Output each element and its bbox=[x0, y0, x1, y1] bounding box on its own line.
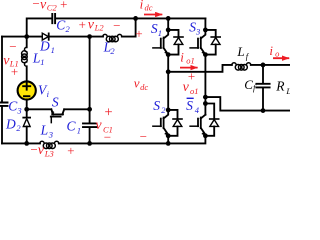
wire left leg top bbox=[167, 18, 169, 30]
node S4 diode split bbox=[203, 101, 208, 106]
inductor L3 bbox=[40, 141, 59, 148]
wire D2 to bottom bbox=[26, 127, 28, 144]
label D1 bbox=[39, 39, 55, 55]
svg-text:dc: dc bbox=[145, 2, 153, 12]
wire riser D1 node down to C1 node bbox=[89, 37, 91, 110]
inductor Lf bbox=[232, 63, 251, 70]
label L3 bbox=[40, 123, 53, 140]
label Vi bbox=[38, 82, 50, 98]
switch S1 (IGBT with diode) bbox=[153, 30, 183, 55]
svg-text:+: + bbox=[135, 26, 144, 41]
svg-text:v: v bbox=[183, 80, 190, 95]
svg-text:2: 2 bbox=[161, 105, 166, 115]
node S-C1 bbox=[87, 107, 92, 112]
wire top bus right segment bbox=[55, 17, 205, 19]
svg-text:S: S bbox=[186, 98, 193, 113]
switch S (horizontal IGBT) bbox=[51, 109, 64, 122]
wire right leg mid bbox=[204, 55, 206, 115]
label C3 bbox=[8, 99, 21, 116]
voltage source Vi bbox=[18, 81, 36, 99]
node S1 bottom bbox=[166, 52, 171, 57]
node Vi output bbox=[24, 107, 29, 112]
wire left rail upper bbox=[1, 37, 3, 102]
label S1 bbox=[151, 21, 162, 38]
label vo1 bbox=[183, 69, 199, 96]
label S switch bbox=[52, 94, 59, 109]
svg-text:4: 4 bbox=[195, 105, 200, 115]
wire Lf to load top bbox=[251, 64, 290, 66]
wire switch S to node bbox=[64, 108, 89, 110]
label Cf bbox=[244, 77, 257, 92]
svg-text:−: − bbox=[139, 129, 148, 144]
wire bridge output 2 bbox=[205, 97, 290, 111]
label L2 bbox=[103, 40, 116, 57]
svg-text:+: + bbox=[10, 64, 19, 79]
wire left leg mid bbox=[167, 55, 169, 110]
node top bus L2 bbox=[133, 16, 138, 21]
svg-text:−: − bbox=[8, 39, 17, 54]
node S2 top bbox=[166, 108, 171, 113]
svg-text:3: 3 bbox=[48, 129, 53, 139]
switch S4 (IGBT with diode) bbox=[190, 104, 219, 136]
label io1 bbox=[180, 50, 195, 66]
svg-text:L: L bbox=[40, 123, 49, 138]
node output tap 1 bbox=[166, 69, 171, 74]
node Cf bottom bbox=[261, 108, 266, 113]
svg-text:v: v bbox=[134, 75, 140, 90]
wire node to D2 bbox=[26, 109, 28, 117]
label io bbox=[269, 43, 279, 59]
switch S2 (IGBT with diode) bbox=[153, 110, 182, 136]
svg-text:o1: o1 bbox=[186, 56, 195, 66]
svg-text:+: + bbox=[104, 105, 114, 121]
node S4 bottom bbox=[203, 133, 208, 138]
svg-text:L: L bbox=[285, 86, 290, 96]
svg-text:R: R bbox=[275, 78, 285, 93]
svg-text:C: C bbox=[67, 118, 77, 133]
wire L1 to source bbox=[26, 66, 28, 81]
label D2 bbox=[5, 116, 21, 133]
svg-text:L: L bbox=[32, 50, 41, 65]
svg-text:3: 3 bbox=[16, 105, 21, 115]
svg-text:o1: o1 bbox=[190, 86, 199, 96]
svg-text:v: v bbox=[95, 118, 102, 133]
label S4 with bar bbox=[186, 98, 200, 115]
svg-text:C: C bbox=[244, 77, 253, 92]
svg-text:L3: L3 bbox=[44, 149, 54, 159]
svg-text:S: S bbox=[52, 94, 59, 109]
node top bus S1 bbox=[166, 16, 171, 21]
inductor L1 bbox=[22, 47, 28, 66]
capacitor Cf bbox=[256, 65, 269, 111]
svg-text:−: − bbox=[103, 130, 112, 145]
label Lf bbox=[236, 44, 249, 61]
svg-text:−: − bbox=[32, 0, 41, 11]
current arrow i_o1 bbox=[180, 67, 198, 69]
node S2 bottom bus bbox=[166, 141, 171, 146]
diode D2 bbox=[23, 118, 30, 127]
wire source to node bbox=[26, 99, 28, 109]
label +vL2- bbox=[78, 17, 121, 33]
label vL1 bbox=[3, 39, 19, 79]
svg-text:i: i bbox=[269, 43, 273, 58]
svg-text:3: 3 bbox=[195, 26, 200, 36]
svg-text:i: i bbox=[47, 89, 50, 99]
wire right leg top bbox=[204, 18, 206, 30]
svg-text:i: i bbox=[180, 50, 184, 65]
node D1-L2-C1 riser bbox=[87, 34, 92, 39]
svg-text:dc: dc bbox=[140, 82, 148, 92]
label i_dc bbox=[140, 0, 153, 12]
label S2 bbox=[153, 98, 166, 115]
wire bridge output 1 bbox=[168, 65, 232, 72]
wire left leg bottom bbox=[167, 136, 169, 144]
wire node to switch S bbox=[27, 108, 52, 110]
node S3 bottom bbox=[203, 52, 208, 57]
svg-text:o: o bbox=[275, 48, 279, 58]
node S3 top bbox=[203, 28, 208, 33]
capacitor C3 bbox=[0, 103, 8, 106]
wire bottom bus left bbox=[2, 142, 40, 144]
svg-text:2: 2 bbox=[66, 24, 71, 34]
node D1 anode bbox=[24, 34, 29, 39]
svg-text:f: f bbox=[246, 51, 250, 61]
switch S3 (IGBT with diode) bbox=[190, 30, 220, 55]
label vC1 bbox=[95, 105, 113, 145]
svg-text:1: 1 bbox=[77, 125, 81, 135]
node output tap 2 bbox=[203, 95, 208, 100]
node S1 top bbox=[166, 28, 171, 33]
svg-text:v: v bbox=[38, 143, 45, 158]
capacitor C1 bbox=[83, 109, 96, 143]
svg-text:D: D bbox=[5, 116, 16, 131]
current arrow i_dc bbox=[144, 14, 162, 16]
capacitor C2 bbox=[52, 14, 55, 23]
wire Vi branch top bbox=[26, 37, 28, 48]
svg-text:2: 2 bbox=[110, 46, 115, 56]
wire left rail lower bbox=[1, 106, 3, 143]
label C2 bbox=[56, 18, 70, 35]
svg-text:1: 1 bbox=[51, 45, 55, 55]
inductor L2 bbox=[103, 34, 122, 41]
label -vC2+ bbox=[32, 0, 69, 13]
svg-text:1: 1 bbox=[40, 57, 44, 67]
svg-text:1: 1 bbox=[158, 28, 162, 38]
svg-text:2: 2 bbox=[16, 123, 21, 133]
diode D1 bbox=[42, 33, 48, 40]
label vdc bbox=[134, 26, 149, 144]
svg-text:D: D bbox=[39, 39, 50, 54]
wire bottom bus right bbox=[59, 136, 206, 144]
node C1 bottom bbox=[87, 141, 92, 146]
node Cf top bbox=[261, 63, 266, 68]
svg-text:+: + bbox=[66, 143, 75, 158]
wire D1 row left bbox=[2, 36, 42, 38]
svg-text:i: i bbox=[140, 0, 144, 12]
label L1 bbox=[32, 50, 45, 67]
svg-text:C2: C2 bbox=[47, 3, 58, 13]
wire top bus left segment (C2 riser and lead) bbox=[27, 18, 52, 36]
label RL bbox=[275, 78, 291, 96]
current arrow i_o bbox=[273, 57, 289, 59]
svg-text:+: + bbox=[78, 17, 87, 32]
node D2 bottom bbox=[24, 141, 29, 146]
svg-text:L: L bbox=[236, 44, 244, 59]
label S3 bbox=[189, 19, 200, 36]
wire D1 to L2 bbox=[49, 36, 103, 38]
svg-text:−: − bbox=[112, 18, 121, 33]
node S2 bottom bbox=[166, 133, 171, 138]
svg-text:L2: L2 bbox=[94, 23, 105, 33]
svg-text:+: + bbox=[59, 0, 68, 11]
label vL3 bbox=[30, 142, 76, 159]
svg-text:S: S bbox=[153, 98, 160, 113]
wire L2 to riser bbox=[122, 18, 136, 36]
label C1 bbox=[67, 118, 82, 135]
